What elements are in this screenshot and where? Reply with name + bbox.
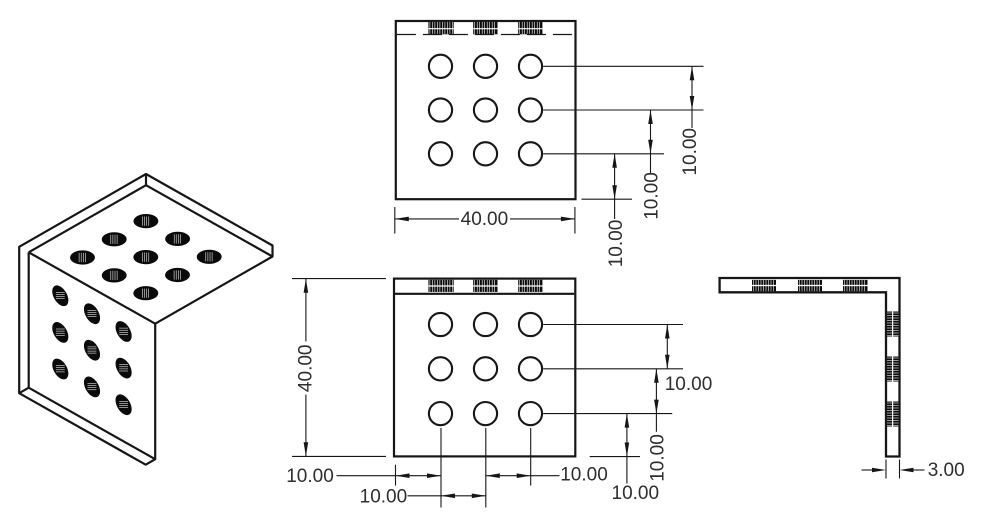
svg-text:10.00: 10.00 xyxy=(680,128,701,176)
svg-text:10.00: 10.00 xyxy=(560,465,608,486)
svg-text:10.00: 10.00 xyxy=(648,434,669,482)
svg-text:10.00: 10.00 xyxy=(286,466,334,487)
svg-text:10.00: 10.00 xyxy=(360,487,408,508)
svg-text:10.00: 10.00 xyxy=(642,172,663,220)
svg-text:10.00: 10.00 xyxy=(665,374,713,395)
svg-text:10.00: 10.00 xyxy=(612,483,660,504)
svg-text:10.00: 10.00 xyxy=(606,220,627,268)
svg-text:40.00: 40.00 xyxy=(461,209,509,230)
svg-text:3.00: 3.00 xyxy=(928,460,965,481)
svg-text:40.00: 40.00 xyxy=(296,345,317,393)
